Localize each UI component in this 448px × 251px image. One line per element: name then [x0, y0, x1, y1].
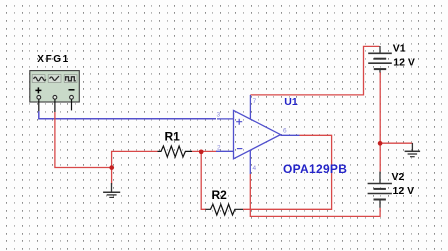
svg-text:XFG1: XFG1	[37, 54, 70, 65]
svg-text:7: 7	[253, 98, 257, 105]
svg-text:R1: R1	[165, 129, 181, 143]
svg-text:OPA129PB: OPA129PB	[283, 162, 347, 176]
svg-text:2: 2	[217, 145, 221, 152]
svg-text:3: 3	[217, 112, 221, 119]
svg-text:R2: R2	[212, 188, 228, 202]
svg-text:V1: V1	[393, 42, 406, 54]
svg-text:4: 4	[253, 165, 257, 172]
svg-text:U1: U1	[284, 96, 298, 108]
svg-text:V2: V2	[392, 171, 405, 183]
svg-text:6: 6	[283, 128, 287, 135]
svg-text:12 V: 12 V	[393, 56, 415, 68]
svg-text:12 V: 12 V	[393, 185, 415, 197]
